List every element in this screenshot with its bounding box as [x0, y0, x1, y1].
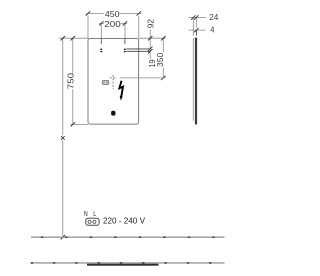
floor line 2 [31, 262, 225, 264]
dimension 4 line [189, 29, 206, 31]
switch dot in mirror [111, 111, 115, 116]
dimension 750 ticks [71, 36, 75, 127]
side view glass line [192, 38, 194, 121]
dimension 4 extension dark [195, 30, 197, 36]
left bottom extension line [70, 123, 88, 125]
legend socket symbol [86, 218, 99, 225]
dimension 24 ticks [191, 15, 198, 19]
dimension 19 tick [148, 49, 152, 53]
svg-text:200: 200 [104, 19, 121, 29]
top-right extension line [139, 37, 166, 39]
socket symbol in mirror [102, 81, 109, 85]
svg-text:24: 24 [209, 12, 218, 22]
dimension 92 line [149, 30, 151, 49]
floor line 2 ticks [31, 262, 212, 264]
X height ticks [61, 36, 65, 239]
svg-text:N: N [84, 210, 88, 218]
svg-text:450: 450 [105, 9, 120, 19]
mounting symbol left [100, 48, 103, 53]
dimension 24 line [189, 17, 207, 19]
floor line 1 ticks [41, 236, 215, 238]
X height line [62, 38, 64, 237]
dimension 200 ticks [99, 21, 127, 25]
svg-text:92: 92 [146, 19, 156, 29]
dimension 450 ticks [86, 11, 141, 15]
dimension 350 ticks [161, 36, 165, 80]
dimension 450 line [86, 14, 142, 39]
bracket double lines [126, 49, 150, 51]
socket centre cross [110, 75, 117, 89]
leader line to socket cross [120, 77, 166, 79]
mounting symbol right [124, 48, 127, 53]
dimension 200 line [99, 23, 128, 38]
dimension 92 ticks [148, 36, 152, 51]
mirror front view outline [88, 39, 139, 125]
side view body [195, 38, 197, 125]
dimension 750 line [72, 38, 74, 124]
X symbol [61, 136, 65, 140]
dimension 19 line [149, 51, 151, 59]
furniture bar under floor line 2 [87, 264, 159, 266]
dimension 350 line [162, 38, 164, 78]
dimension 24 extension lines [193, 18, 196, 36]
svg-text:4: 4 [210, 24, 214, 34]
svg-text:350: 350 [155, 52, 165, 67]
lightning bolt [119, 81, 123, 98]
left top extension line [59, 37, 88, 39]
dimension 4 tick [194, 28, 198, 32]
mounting point line left [100, 39, 102, 45]
svg-text:220 - 240 V: 220 - 240 V [103, 215, 145, 225]
floor line 1 [31, 236, 225, 238]
svg-text:750: 750 [66, 73, 76, 90]
mounting point line right [124, 39, 126, 45]
svg-text:L: L [93, 210, 96, 218]
